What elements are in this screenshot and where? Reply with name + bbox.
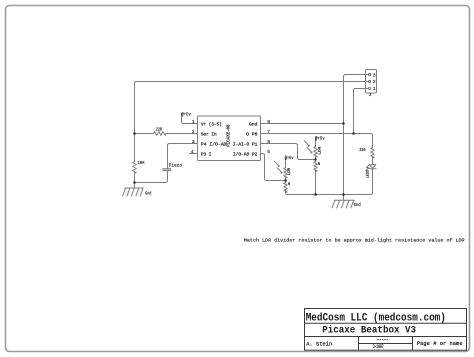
svg-text:@+5v: @+5v bbox=[315, 135, 325, 141]
svg-text:8: 8 bbox=[267, 119, 270, 125]
svg-text:Gnd: Gnd bbox=[354, 202, 361, 208]
svg-text:10K: 10K bbox=[138, 160, 145, 166]
svg-text:V+ (3-5): V+ (3-5) bbox=[201, 122, 222, 127]
svg-text:Gnd: Gnd bbox=[145, 190, 151, 196]
svg-text:A. Stein: A. Stein bbox=[306, 340, 332, 347]
svg-text:5: 5 bbox=[267, 149, 270, 155]
svg-text:Match LDR divider resistor to: Match LDR divider resistor to be approx … bbox=[244, 238, 465, 244]
svg-text:@+5v: @+5v bbox=[285, 155, 294, 161]
svg-text:7: 7 bbox=[267, 129, 270, 135]
svg-text:3: 3 bbox=[192, 139, 195, 145]
svg-text:MedCosm LLC (medcosm.com): MedCosm LLC (medcosm.com) bbox=[306, 312, 446, 324]
svg-text:PICAXE-08: PICAXE-08 bbox=[226, 124, 231, 147]
svg-text:I/O-AO P2: I/O-AO P2 bbox=[233, 152, 258, 157]
svg-text:I-AI-O P1: I-AI-O P1 bbox=[233, 142, 258, 147]
svg-text:P4 I/O-AD: P4 I/O-AD bbox=[201, 142, 227, 147]
svg-text:1: 1 bbox=[192, 119, 195, 125]
svg-text:Piezo: Piezo bbox=[169, 163, 183, 169]
svg-text:330: 330 bbox=[359, 147, 365, 153]
svg-text:P3 I: P3 I bbox=[201, 152, 212, 157]
svg-text:Gnd: Gnd bbox=[249, 122, 258, 127]
svg-text:Picaxe Beatbox V3: Picaxe Beatbox V3 bbox=[322, 325, 416, 337]
svg-text:O P0: O P0 bbox=[246, 132, 258, 137]
svg-text:LDR: LDR bbox=[288, 167, 292, 175]
svg-text:3: 3 bbox=[373, 72, 376, 78]
svg-text:1: 1 bbox=[373, 86, 376, 92]
svg-text:LED1: LED1 bbox=[367, 170, 371, 178]
svg-text:4: 4 bbox=[191, 149, 194, 155]
svg-text:2: 2 bbox=[192, 129, 195, 135]
svg-text:3-2007: 3-2007 bbox=[373, 344, 384, 350]
svg-text:@+5v: @+5v bbox=[181, 112, 191, 118]
svg-text:6: 6 bbox=[267, 139, 270, 145]
svg-text:22K: 22K bbox=[156, 126, 163, 132]
svg-text:2: 2 bbox=[373, 79, 376, 85]
svg-text:Ser In: Ser In bbox=[201, 132, 217, 137]
svg-text:J: J bbox=[369, 92, 372, 98]
svg-text:LDR: LDR bbox=[318, 146, 322, 154]
svg-text:Page # or name: Page # or name bbox=[417, 340, 463, 347]
